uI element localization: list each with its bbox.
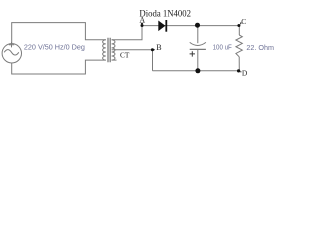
svg-text:Dioda 1N4002: Dioda 1N4002 [139, 9, 191, 19]
svg-text:CT: CT [120, 51, 130, 60]
svg-text:22. Ohm: 22. Ohm [246, 43, 274, 52]
svg-text:D: D [242, 69, 248, 78]
svg-text:B: B [156, 43, 161, 52]
svg-text:A: A [139, 15, 145, 24]
svg-text:100 uF: 100 uF [213, 45, 232, 52]
svg-text:220 V/50 Hz/0 Deg: 220 V/50 Hz/0 Deg [24, 43, 85, 52]
svg-text:C: C [241, 17, 246, 26]
